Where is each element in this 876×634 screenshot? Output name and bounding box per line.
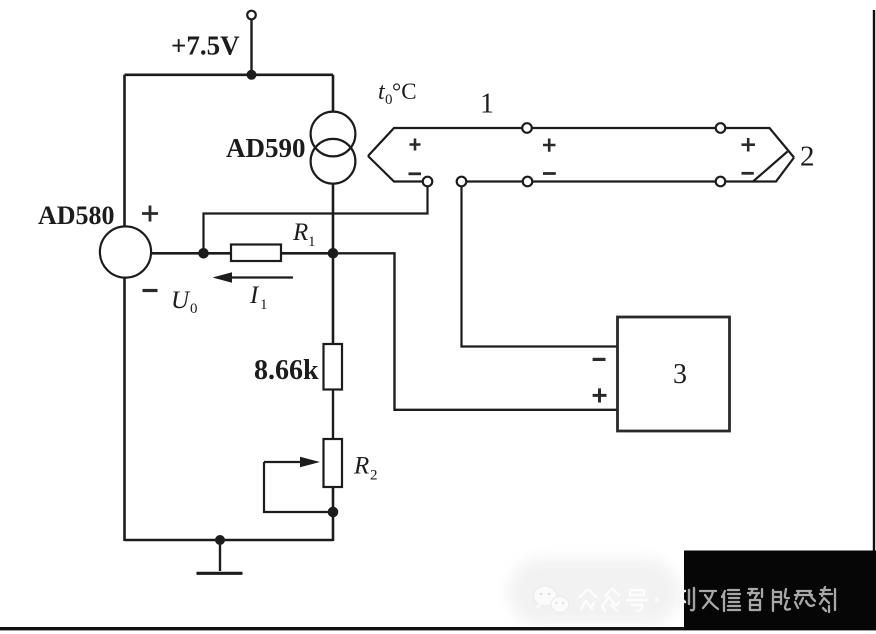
node A — [198, 248, 209, 259]
wire — [123, 75, 126, 227]
watermark text li left radical — [674, 588, 685, 608]
arrow I1 — [218, 276, 293, 278]
wire — [250, 20, 252, 75]
ground — [219, 540, 221, 571]
wire — [204, 187, 428, 254]
cable end slash — [753, 152, 788, 182]
frame bottom rule — [0, 627, 876, 630]
potentiometer R2 — [324, 439, 343, 487]
node B — [328, 248, 339, 259]
label plus AD580 — [142, 206, 158, 222]
label minus AD580 — [143, 289, 158, 292]
wire — [332, 487, 335, 541]
arrow R2 wiper — [264, 461, 302, 463]
supply terminal — [247, 11, 256, 20]
wire — [333, 253, 618, 409]
wire — [151, 252, 333, 255]
node terminal top 2 — [716, 123, 726, 133]
watermark wechat icon — [534, 586, 570, 613]
node ground junction — [215, 535, 225, 545]
resistor R1 — [231, 245, 281, 262]
node terminal top 1 — [522, 123, 532, 133]
voltage reference U1 AD580 — [100, 226, 151, 277]
watermark text on black — [700, 587, 835, 612]
node terminal bottom 3 — [523, 177, 533, 187]
wire — [332, 390, 334, 440]
wire — [462, 186, 618, 346]
wire — [125, 74, 334, 77]
node supply junction — [247, 70, 257, 80]
node terminal bottom 4 — [716, 177, 726, 187]
cable shield outline — [368, 128, 794, 158]
label plus box3 — [593, 388, 607, 402]
wire — [125, 539, 334, 542]
wire — [332, 184, 335, 344]
node R2 bottom — [328, 507, 339, 518]
node terminal bottom 2 — [457, 177, 467, 187]
label minus segment2 — [543, 172, 556, 175]
label minus segment3 — [742, 172, 754, 175]
box 3 meter — [618, 317, 730, 431]
label plus segment1 — [410, 139, 421, 151]
watermark backdrop pill — [508, 558, 680, 626]
wire — [123, 278, 126, 542]
label minus segment1 — [409, 172, 422, 175]
watermark black panel — [684, 551, 876, 631]
wire — [264, 462, 333, 512]
current source U2 AD590 — [311, 112, 356, 157]
label minus box3 — [593, 358, 606, 361]
watermark text li right radical — [689, 588, 694, 610]
frame right border — [873, 10, 875, 551]
label plus segment2 — [543, 139, 556, 152]
watermark text gongzhonghao — [580, 589, 660, 611]
node terminal bottom 1 — [423, 177, 433, 187]
wire — [332, 75, 335, 112]
resistor 8.66k — [324, 344, 343, 390]
label plus segment3 — [742, 138, 756, 152]
